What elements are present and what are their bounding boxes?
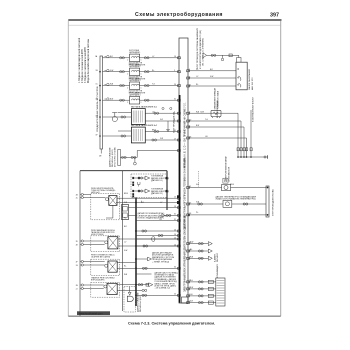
svg-text:BR-B: BR-B xyxy=(152,130,156,132)
relay4 output wires xyxy=(117,285,136,291)
ignition ground xyxy=(166,121,170,132)
relay group 3 fuel pump relay xyxy=(91,253,120,275)
page number 397 xyxy=(270,13,279,19)
svg-text:К ДИАГН.: К ДИАГН. xyxy=(214,253,217,262)
svg-text:РАЗЪЕМЫ A, B, C, D — СМ. ПРИМЕ: РАЗЪЕМЫ A, B, C, D — СМ. ПРИМЕЧАНИЯ НА С… xyxy=(183,102,186,168)
svg-text:2. Модели с механической КПП: 2. Модели с механической КПП xyxy=(81,49,84,83)
injector row1 connectors xyxy=(120,57,149,59)
svg-text:L-Y: L-Y xyxy=(124,242,127,244)
svg-text:R-L: R-L xyxy=(152,70,155,72)
svg-text:P-L: P-L xyxy=(196,69,199,71)
ignition switch SW xyxy=(236,58,247,90)
EGR valve VSV xyxy=(222,178,231,191)
svg-text:BR-B: BR-B xyxy=(124,193,128,195)
caption xyxy=(128,322,215,326)
ignition coil box B xyxy=(131,124,158,143)
harness label top right (rotated) xyxy=(196,27,205,69)
DLC wire connectors xyxy=(121,156,135,158)
panel row labels xyxy=(95,55,98,136)
bundle connector row xyxy=(237,148,252,151)
coil B wires xyxy=(103,131,180,140)
svg-text:R-L: R-L xyxy=(124,266,127,268)
svg-text:ЖИДКОСТИ (УКАЗАТЕЛЬ ТЕМПЕРАТУР: ЖИДКОСТИ (УКАЗАТЕЛЬ ТЕМПЕРАТУРЫ) xyxy=(216,198,256,201)
relay2 terminals xyxy=(80,240,105,246)
svg-text:AM2 IG2 ST2: AM2 IG2 ST2 xyxy=(251,77,254,90)
svg-text:2G: 2G xyxy=(76,265,79,267)
svg-text:L-Y: L-Y xyxy=(160,202,163,204)
svg-text:СИСТЕМА ЦЕНТРАЛЬНОГО ВПРЫСКА Т: СИСТЕМА ЦЕНТРАЛЬНОГО ВПРЫСКА ТОПЛИВА И З… xyxy=(183,158,186,230)
svg-text:13: 13 xyxy=(174,206,176,208)
twisted pair loop xyxy=(136,237,179,242)
svg-text:1: 1 xyxy=(141,74,142,76)
injector wire row 3 xyxy=(103,85,180,87)
aux output row 2 xyxy=(188,249,212,253)
svg-text:G-R: G-R xyxy=(196,184,200,186)
svg-text:G-W: G-W xyxy=(190,242,194,244)
camshaft sensor wire xyxy=(136,267,179,269)
svg-text:1: 1 xyxy=(141,88,142,90)
svg-text:2E: 2E xyxy=(76,244,78,246)
svg-text:ВПРЫСКА (EFI): ВПРЫСКА (EFI) xyxy=(91,279,105,282)
idle valve wire xyxy=(136,220,179,222)
svg-text:Модели без антиблокировочной с: Модели без антиблокировочной системы xyxy=(87,39,90,83)
svg-text:1: 1 xyxy=(141,102,142,104)
svg-text:1A: 1A xyxy=(95,55,98,58)
svg-text:W-B: W-B xyxy=(196,111,199,113)
page frame bottom edge xyxy=(68,315,280,317)
relay2 output wires xyxy=(118,239,179,246)
injector wire row 1 xyxy=(103,57,180,59)
page frame top edge xyxy=(68,24,280,26)
svg-text:B-W: B-W xyxy=(190,287,194,289)
svg-text:G-W: G-W xyxy=(124,250,128,252)
sensor column border xyxy=(121,171,123,311)
sensor branch top wire xyxy=(188,187,266,189)
svg-text:2: 2 xyxy=(127,88,128,90)
svg-text:1F: 1F xyxy=(96,134,98,136)
svg-text:1: 1 xyxy=(174,119,175,121)
O2 bar pins xyxy=(166,177,168,192)
svg-text:R-L: R-L xyxy=(190,249,193,251)
coil A wires xyxy=(103,113,180,122)
svg-text:V-W: V-W xyxy=(196,202,200,204)
harness boundary dashed xyxy=(198,171,200,187)
svg-text:К МОНТАЖНОМУ БЛОКУ: К МОНТАЖНОМУ БЛОКУ xyxy=(252,97,255,122)
svg-text:L-B: L-B xyxy=(205,136,207,138)
svg-text:2C: 2C xyxy=(76,197,79,199)
svg-text:1C: 1C xyxy=(96,84,99,86)
O2 shield bridge xyxy=(138,182,141,187)
svg-text:10: 10 xyxy=(174,244,176,246)
ignition switch label (rotated) xyxy=(248,69,254,90)
svg-text:ДИАГНОСТИЧЕСКИЙ: ДИАГНОСТИЧЕСКИЙ xyxy=(108,147,111,167)
DLC ground connector xyxy=(134,157,137,165)
connector triangle T1 xyxy=(203,53,207,58)
svg-text:2H: 2H xyxy=(76,285,79,287)
ignition coil box A xyxy=(131,106,158,125)
O2 amp 1 xyxy=(133,175,170,182)
svg-text:СА (РЕЛЕ ВКЛ. ЦЕПИ): СА (РЕЛЕ ВКЛ. ЦЕПИ) xyxy=(91,255,110,258)
svg-text:2B: 2B xyxy=(76,194,78,196)
ECU right pins xyxy=(187,70,190,304)
svg-text:B-R: B-R xyxy=(141,202,145,204)
svg-text:W-B: W-B xyxy=(124,274,127,276)
svg-text:КАТУШКА ЗАЖИГАНИЯ №1: КАТУШКА ЗАЖИГАНИЯ №1 xyxy=(131,106,158,109)
coil output connectors xyxy=(152,107,172,141)
DLC wires xyxy=(120,151,179,158)
svg-text:26: 26 xyxy=(174,229,176,231)
svg-text:15: 15 xyxy=(174,197,176,199)
watermark bar www xyxy=(77,311,110,315)
svg-text:1: 1 xyxy=(141,60,142,62)
svg-text:W-B: W-B xyxy=(110,84,113,86)
svg-text:КОМБИНАЦИЯ: КОМБИНАЦИЯ xyxy=(216,264,219,278)
relay group 4 main relay xyxy=(91,277,120,298)
relay3 output wires xyxy=(117,263,136,269)
branch junction dots xyxy=(267,187,269,216)
injector I3 xyxy=(127,77,146,95)
coolant sensor row xyxy=(188,200,266,207)
svg-text:G-W: G-W xyxy=(110,70,114,72)
svg-text:СОЕДИНИТЕЛЬНАЯ ПАНЕЛЬ ЖГУТА ПР: СОЕДИНИТЕЛЬНАЯ ПАНЕЛЬ ЖГУТА ПРОВ. xyxy=(96,86,99,132)
svg-text:К БЛОКУ ПРЕДОХР.: К БЛОКУ ПРЕДОХР. xyxy=(217,100,219,118)
svg-text:L-B: L-B xyxy=(190,294,192,296)
relay group 2 ignition relay xyxy=(91,229,120,252)
svg-text:25: 25 xyxy=(174,294,176,296)
svg-text:1B: 1B xyxy=(96,70,99,72)
svg-text:24: 24 xyxy=(174,84,176,86)
svg-text:РАЗЪЕМ №1 (DLC1): РАЗЪЕМ №1 (DLC1) xyxy=(111,149,114,167)
svg-text:Схемы электрооборудования: Схемы электрооборудования xyxy=(135,11,223,18)
svg-text:2D: 2D xyxy=(76,241,79,243)
svg-text:ЖГУТ ПРОВОДОВ КУЗОВА: ЖГУТ ПРОВОДОВ КУЗОВА xyxy=(272,189,275,216)
svg-text:31: 31 xyxy=(174,214,176,216)
panel bottom stub xyxy=(100,149,102,154)
svg-text:+ 2Е (СХЕМА 7-2): + 2Е (СХЕМА 7-2) xyxy=(155,287,171,290)
svg-text:W-B: W-B xyxy=(190,256,193,258)
cluster row 2 xyxy=(188,287,216,290)
panel row connector marks xyxy=(105,55,110,100)
svg-text:СИСТЕМЫ EGR: СИСТЕМЫ EGR xyxy=(229,166,231,182)
O2 box pin marks xyxy=(132,177,134,198)
header rule xyxy=(68,19,281,21)
crank sensor wires xyxy=(136,283,149,291)
injector row3 connectors xyxy=(120,85,149,87)
lower-left section left border xyxy=(79,171,81,316)
svg-text:31: 31 xyxy=(174,99,176,101)
shield bus xyxy=(135,198,137,307)
svg-text:B-R: B-R xyxy=(124,226,128,228)
svg-text:НОМ ОТСЕКЕ): НОМ ОТСЕКЕ) xyxy=(91,234,104,236)
injector wire row 2 xyxy=(103,71,180,73)
injector wire row 4 xyxy=(103,99,180,101)
relay terminal labels xyxy=(76,194,79,290)
crank sensor label block xyxy=(155,271,179,289)
svg-text:ЖГУТ ПРОВОДОВ СИСТЕМЫ ЗАЖИГАНИ: ЖГУТ ПРОВОДОВ СИСТЕМЫ ЗАЖИГАНИЯ xyxy=(196,27,199,69)
coolant sensor label xyxy=(216,195,257,200)
svg-text:P-L: P-L xyxy=(124,218,127,220)
VSV valve on wire 113 xyxy=(201,87,222,118)
short wire into crank block xyxy=(136,273,152,275)
cluster row 3 xyxy=(188,294,216,297)
svg-text:+ ЭКРАН. ПРОВОД: + ЭКРАН. ПРОВОД xyxy=(152,260,170,263)
svg-text:ЦИЛИНДРА 3: ЦИЛИНДРА 3 xyxy=(129,79,140,82)
svg-text:ЦИЛИНДРА 1: ЦИЛИНДРА 1 xyxy=(129,51,140,54)
ECU pin numbers left xyxy=(174,56,176,296)
svg-text:16: 16 xyxy=(174,56,176,58)
O2 amp 2 xyxy=(133,188,170,195)
panel junction dots xyxy=(99,71,101,137)
svg-text:5: 5 xyxy=(174,112,175,114)
relay1 terminals xyxy=(80,193,106,198)
svg-text:1. Модели с антиблокировочной: 1. Модели с антиблокировочной системой xyxy=(78,37,81,83)
injector I4 xyxy=(127,91,141,104)
svg-text:ЗАМОК ЗАЖИГАНИЯ: ЗАМОК ЗАЖИГАНИЯ xyxy=(248,69,251,90)
page frame left edge xyxy=(67,21,69,317)
switch feed wires xyxy=(188,71,236,86)
noise filter capacitor xyxy=(112,113,117,122)
TPS triangle xyxy=(162,214,165,218)
ECU bottom pin box xyxy=(182,297,189,303)
crank sensor triangle xyxy=(149,283,153,287)
svg-text:31: 31 xyxy=(174,219,176,221)
svg-text:2: 2 xyxy=(127,60,128,62)
svg-text:РАЗЪЕМУ: РАЗЪЕМУ xyxy=(216,252,219,262)
svg-text:ЦИЛИНДРА 2: ЦИЛИНДРА 2 xyxy=(129,65,140,68)
svg-text:СМ. СХЕМУ 7-2.1 (ПИТАНИЕ): СМ. СХЕМУ 7-2.1 (ПИТАНИЕ) xyxy=(202,38,205,66)
cluster row 1 xyxy=(188,280,216,283)
page frame right edge xyxy=(280,21,282,317)
header title xyxy=(135,11,223,18)
svg-text:И ЭЛЕКТРОПРОВОДКИ ДВИГАТЕЛЯ (2: И ЭЛЕКТРОПРОВОДКИ ДВИГАТЕЛЯ (2E) xyxy=(199,30,202,69)
right connector bar xyxy=(266,186,275,217)
coil A feed connectors xyxy=(121,116,126,118)
svg-text:L-B: L-B xyxy=(152,111,154,113)
TPS label block xyxy=(138,212,167,219)
sensor branch bottom wire xyxy=(188,214,266,216)
svg-text:3. Модели с автоматической КПП: 3. Модели с автоматической КПП xyxy=(84,47,87,83)
relay4 terminals xyxy=(80,284,104,290)
legend notes (rotated) xyxy=(78,37,90,83)
relay1 output wires xyxy=(117,197,179,199)
svg-text:31: 31 xyxy=(174,130,176,132)
svg-text:КАТУШКА ЗАЖИГАНИЯ №2: КАТУШКА ЗАЖИГАНИЯ №2 xyxy=(131,124,158,127)
injector I1 xyxy=(127,49,146,67)
svg-text:2: 2 xyxy=(127,74,128,76)
svg-text:G-W: G-W xyxy=(210,76,214,78)
svg-text:397: 397 xyxy=(270,13,279,19)
middle wires to ECU xyxy=(136,230,179,237)
svg-text:15: 15 xyxy=(174,237,176,239)
svg-text:2: 2 xyxy=(127,102,128,104)
knock sensor triangle xyxy=(148,257,152,261)
injector row4 connectors xyxy=(120,99,149,101)
injector row2 connectors xyxy=(120,71,149,73)
long wire below O2 box xyxy=(116,202,177,204)
bottom shield wire xyxy=(136,294,179,296)
svg-text:www.krutilvertel.com: www.krutilvertel.com xyxy=(79,311,103,315)
svg-text:34: 34 xyxy=(174,267,176,269)
EVAP wire xyxy=(136,245,179,247)
knock wire xyxy=(136,258,148,260)
O2 shield pin box xyxy=(177,195,179,198)
svg-text:(В МОТОРН. ОТСЕКЕ): (В МОТОРН. ОТСЕКЕ) xyxy=(115,147,117,167)
feed wire connectors xyxy=(211,54,224,61)
power bundle wires xyxy=(188,110,251,157)
svg-text:РАЗЪЕМ №2 (DLC): РАЗЪЕМ №2 (DLC) xyxy=(139,295,142,312)
bundle bottom wire xyxy=(237,155,267,159)
long wire pin box xyxy=(177,201,179,204)
svg-text:B-W: B-W xyxy=(196,125,200,127)
svg-text:V-W: V-W xyxy=(160,138,164,140)
TPS wires xyxy=(129,208,180,217)
svg-text:1E: 1E xyxy=(99,156,102,158)
svg-text:10: 10 xyxy=(174,234,176,236)
svg-text:2J: 2J xyxy=(76,288,78,290)
svg-text:V-W: V-W xyxy=(124,202,128,204)
diagnostic connector DLC1 xyxy=(108,147,120,167)
connector panel J/B xyxy=(96,56,103,149)
instrument cluster hatched block xyxy=(216,278,225,306)
O2 sensor dashed box xyxy=(131,171,167,210)
wire code labels xyxy=(110,56,234,303)
injector I2 xyxy=(127,63,146,81)
ECU pin numbers right xyxy=(189,69,191,303)
svg-text:2F: 2F xyxy=(76,261,78,263)
battery feed wire xyxy=(207,55,239,57)
section divider xyxy=(80,170,167,172)
knock sensor label block xyxy=(152,252,174,264)
relay group 1 fan relay xyxy=(91,188,120,220)
svg-text:ЦИЛИНДРА 4: ЦИЛИНДРА 4 xyxy=(129,93,140,96)
svg-text:(ДАТЧИК 1/1): (ДАТЧИК 1/1) xyxy=(151,179,163,182)
svg-text:17: 17 xyxy=(174,138,176,140)
svg-text:R-L: R-L xyxy=(196,84,199,86)
fuse F1 xyxy=(229,54,232,57)
aux output row 1 xyxy=(188,242,212,246)
ECU left pins xyxy=(178,57,181,296)
EGR label (rotated) xyxy=(225,155,231,182)
aux labels (rotated) xyxy=(214,252,220,262)
relay3 terminals xyxy=(80,260,105,266)
throttle position sensor box xyxy=(122,205,129,220)
svg-text:9: 9 xyxy=(174,70,175,72)
svg-text:B-W: B-W xyxy=(110,98,114,100)
svg-text:P-L: P-L xyxy=(196,212,199,214)
svg-text:Схема 7-2.3. Система управлени: Схема 7-2.3. Система управления двигател… xyxy=(128,322,215,326)
ECU bar xyxy=(179,38,188,303)
aux output row 3 xyxy=(188,256,212,260)
svg-text:BR-B: BR-B xyxy=(230,184,234,186)
diag plug dashed box xyxy=(124,287,142,312)
cluster row 4 xyxy=(188,301,216,304)
svg-text:(ДАТЧИК 2/1): (ДАТЧИК 2/1) xyxy=(151,192,163,195)
coil B feed connectors xyxy=(121,135,126,137)
